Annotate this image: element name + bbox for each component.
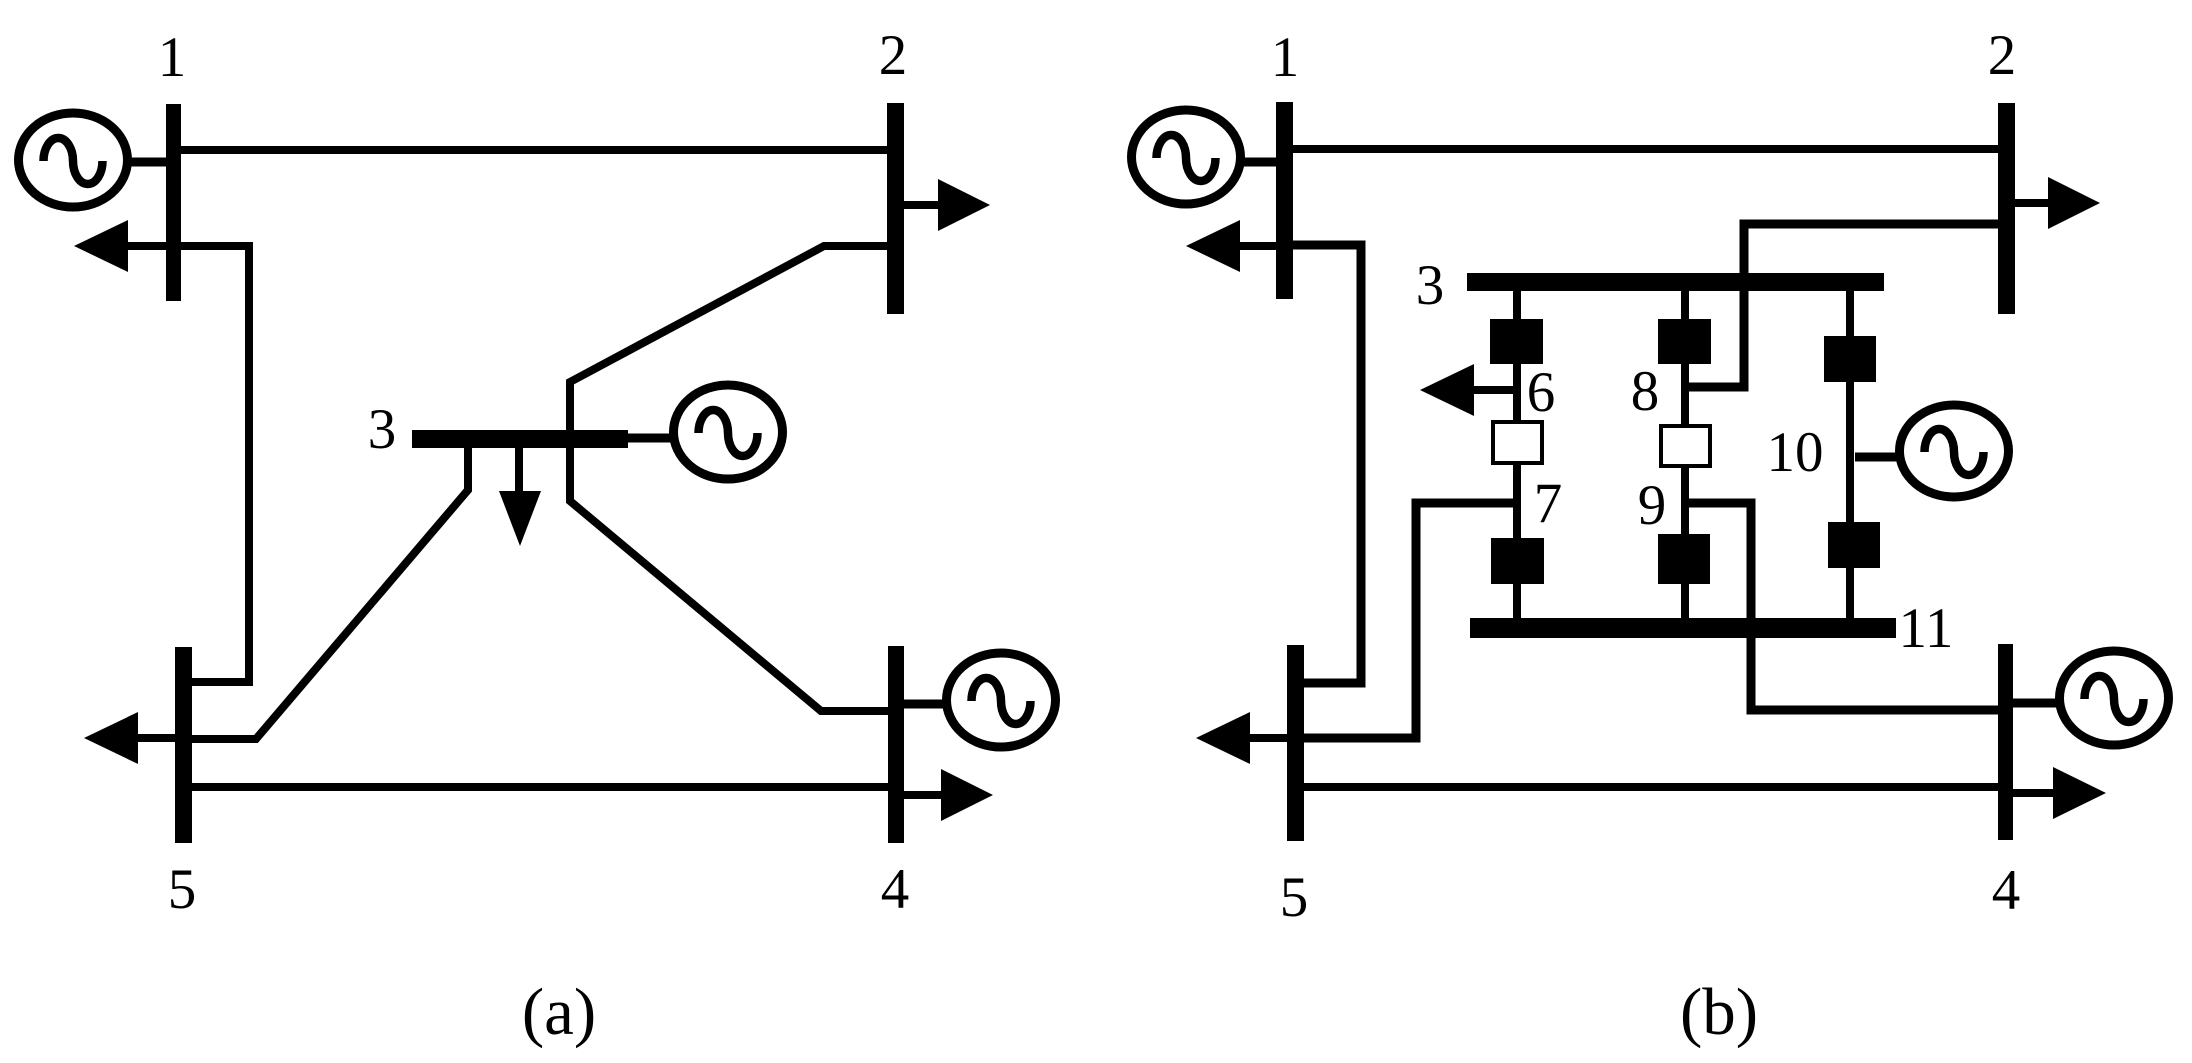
generator G3 (a) xyxy=(628,385,783,479)
wire switch 6-7 to breaker 7 (b) xyxy=(1513,462,1521,540)
wire line 3-4 (a) xyxy=(570,444,890,711)
load arrow at bus 4 (a) xyxy=(904,769,993,821)
load arrow at bus 1 (b) xyxy=(1186,220,1276,272)
load arrow at bus 2 (b) xyxy=(2015,177,2100,229)
breaker 9 (b) xyxy=(1658,534,1710,584)
wire breaker 8 to switch 8-9 (b) xyxy=(1681,364,1689,426)
svg-text:5: 5 xyxy=(1280,866,1309,929)
generator G4 (a) xyxy=(904,653,1056,747)
svg-text:2: 2 xyxy=(1988,24,2017,87)
bus 5 (b) xyxy=(1287,645,1304,841)
breaker 10 upper (b) xyxy=(1824,336,1876,382)
wire line 2-3 (a) xyxy=(570,246,890,434)
svg-text:(b): (b) xyxy=(1680,975,1758,1049)
load arrow at bus 1 (a) xyxy=(74,220,166,272)
breaker 7 (b) xyxy=(1491,538,1544,584)
wire line 9-4 (b) xyxy=(1685,503,2001,710)
wire line 1-2 (b) xyxy=(1293,145,2001,153)
load arrow at node 6 (b) xyxy=(1420,364,1513,416)
svg-text:3: 3 xyxy=(368,398,397,461)
generator G4 (b) xyxy=(2013,651,2169,745)
svg-text:5: 5 xyxy=(168,858,197,921)
bus 11 (b) xyxy=(1470,618,1896,638)
bus 3 (b) xyxy=(1467,273,1884,291)
load arrow at bus 2 (a) xyxy=(904,179,990,231)
bus 1 (b) xyxy=(1276,102,1293,299)
breaker 8 (b) xyxy=(1658,319,1711,364)
load arrow at bus 4 (b) xyxy=(2013,767,2106,819)
switch 6-7 open square (b) xyxy=(1493,422,1542,463)
wire line 5-7 (b) xyxy=(1304,503,1513,738)
breaker 10 lower (b) xyxy=(1828,522,1880,568)
wire line 3-5 (a) xyxy=(192,444,468,739)
svg-text:3: 3 xyxy=(1416,254,1445,317)
svg-text:8: 8 xyxy=(1631,360,1660,423)
wire line 1-2 (a) xyxy=(181,146,890,154)
svg-text:1: 1 xyxy=(1271,26,1300,89)
load arrow at bus 3 (a) xyxy=(499,448,541,546)
wire breaker 9 to bus 11 (b) xyxy=(1681,584,1689,622)
bus 2 (b) xyxy=(1998,103,2015,314)
bus 5 (a) xyxy=(175,647,192,843)
svg-text:6: 6 xyxy=(1527,361,1556,424)
wire line 5-4 (a) xyxy=(192,783,890,791)
wire line 1-5 (b) xyxy=(1293,245,1361,683)
generator G10 (b) xyxy=(1855,405,2009,497)
svg-text:1: 1 xyxy=(158,26,187,89)
wire line 2-8 (b) xyxy=(1685,224,2001,387)
wire breaker 7 to bus 11 (b) xyxy=(1513,584,1521,622)
wire bus3 to breaker 8 (b) xyxy=(1681,291,1689,322)
svg-text:4: 4 xyxy=(881,858,910,921)
bus 4 (b) xyxy=(1998,644,2013,840)
breaker 6 (b) xyxy=(1490,319,1543,364)
wire switch 8-9 to breaker 9 (b) xyxy=(1681,466,1689,536)
svg-text:7: 7 xyxy=(1534,472,1563,535)
svg-text:(a): (a) xyxy=(522,975,596,1049)
wire line 1-5 (a) xyxy=(181,246,249,682)
svg-text:11: 11 xyxy=(1899,597,1954,660)
wire breaker 10 upper to breaker 10 lower (b) xyxy=(1846,382,1854,524)
wire bus3 to breaker 10 upper (b) xyxy=(1846,291,1854,338)
switch 8-9 open square (b) xyxy=(1661,426,1710,466)
bus 4 (a) xyxy=(888,646,904,843)
svg-text:4: 4 xyxy=(1992,859,2021,922)
load arrow at bus 5 (b) xyxy=(1196,712,1287,764)
load arrow at bus 5 (a) xyxy=(84,712,175,764)
wire breaker 6 to switch 6-7 (b) xyxy=(1513,364,1521,422)
generator G1 (b) xyxy=(1132,110,1277,204)
svg-text:2: 2 xyxy=(879,24,908,87)
bus 1 (a) xyxy=(166,104,181,301)
bus 2 (a) xyxy=(887,103,904,314)
generator G1 (a) xyxy=(19,113,167,207)
wire breaker 10 lower to bus 11 (b) xyxy=(1846,568,1854,622)
wire line 5-4 (b) xyxy=(1304,783,2001,791)
svg-text:9: 9 xyxy=(1638,474,1667,537)
bus 3 (a) xyxy=(412,430,628,448)
svg-text:10: 10 xyxy=(1767,421,1824,484)
wire bus3 to breaker 6 (b) xyxy=(1513,291,1521,322)
